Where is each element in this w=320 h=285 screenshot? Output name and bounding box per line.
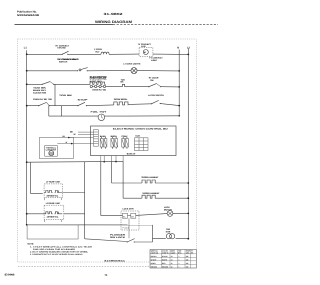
wire riser x84.6 down <box>84 162 86 239</box>
wire riser x123.1 to element row8 <box>122 162 124 199</box>
svg-text:5995268448: 5995268448 <box>17 14 40 17</box>
svg-text:3. COMPONTE SLTV IF 20 NOT UPP: 3. COMPONTE SLTV IF 20 NOT UPPLER ON ALL… <box>30 253 84 256</box>
LF surface unit dashed box <box>44 180 63 200</box>
wire row3 EOC circuit <box>27 84 180 87</box>
wire row7 rear element <box>112 182 189 184</box>
wire row9b lock to motor <box>128 213 189 215</box>
svg-text:L1: L1 <box>24 46 28 49</box>
svg-text:SWITCH: SWITCH <box>59 61 68 64</box>
wire row4 broil circuit <box>27 104 180 106</box>
svg-text:MTR: MTR <box>166 230 171 233</box>
svg-text:N: N <box>177 46 179 49</box>
thermal limiter symbol <box>49 151 54 156</box>
wire S3 to row4 <box>54 84 56 105</box>
resistor rear surface element <box>141 176 159 183</box>
junction row1-L1 <box>26 53 28 55</box>
junction row7-L2 <box>187 182 189 184</box>
svg-text:ELECTRONIC OVEN CONTROL BD: ELECTRONIC OVEN CONTROL BD <box>113 128 169 131</box>
junction row8-L2 <box>187 197 189 199</box>
svg-text:LF SURF UNIT: LF SURF UNIT <box>46 180 61 183</box>
svg-text:1500W EL: 1500W EL <box>47 216 60 219</box>
svg-text:3000W ELEMENT: 3000W ELEMENT <box>141 176 159 179</box>
wire row1 L1 to convection fan <box>27 53 189 55</box>
header rule <box>15 24 114 26</box>
connector J1 EOC plug <box>89 75 107 91</box>
lamp oven lights <box>123 63 141 74</box>
svg-text:3400W BROIL: 3400W BROIL <box>114 98 128 101</box>
motor M3 lock motor <box>164 206 173 216</box>
svg-text:DLB: DLB <box>136 135 141 138</box>
svg-text:OVEN RLY BD: OVEN RLY BD <box>92 88 106 91</box>
svg-text:E998: E998 <box>5 274 16 277</box>
svg-text:L2: L2 <box>187 46 191 49</box>
thermal limiter inner box <box>45 146 58 157</box>
junction row4-L1 <box>26 105 28 107</box>
pin P1 bake contact <box>121 78 127 86</box>
junction row3-L1 <box>26 83 28 85</box>
junction row2-L1 <box>26 70 28 72</box>
svg-text:M: M <box>144 51 146 54</box>
N bus <box>178 50 180 117</box>
svg-text:W: W <box>74 133 76 136</box>
svg-text:2400W ELEMENT: 2400W ELEMENT <box>142 192 160 195</box>
motor M4 timer motor double coil <box>166 228 175 239</box>
wire LF unit to riser <box>63 192 85 194</box>
wire row12 motor row <box>153 238 189 240</box>
svg-text:TOD BK: TOD BK <box>59 94 73 97</box>
svg-text:CLEAN SW: CLEAN SW <box>33 91 46 94</box>
svg-text:LR SURF UNIT: LR SURF UNIT <box>46 202 61 205</box>
switch S6 latch switch <box>148 94 164 104</box>
wire row10 lower feed <box>27 224 153 226</box>
svg-text:BR: BR <box>131 215 134 218</box>
svg-text:LT OVEN LIGHTS: LT OVEN LIGHTS <box>123 63 141 66</box>
svg-text:SW: SW <box>150 79 153 82</box>
svg-text:70: 70 <box>105 274 108 277</box>
text block relay labels <box>33 87 73 98</box>
junction row6 pins <box>103 161 105 163</box>
wire row11 plunger switch row <box>85 239 153 242</box>
wire riser row4-row5 a <box>48 106 50 116</box>
resistor broil element <box>114 98 129 105</box>
wire riser row4-row5 b <box>61 106 63 116</box>
svg-text:NOTE:: NOTE: <box>28 243 35 246</box>
switch S1 convect fan switch <box>56 44 80 61</box>
lock motor assembly dashed box <box>121 207 139 238</box>
svg-text:FOIL TWT: FOIL TWT <box>91 111 108 114</box>
limiter box oven relay board <box>40 137 74 158</box>
wire row9 L1 to RF unit <box>27 213 44 215</box>
connector strip J2 <box>94 130 99 147</box>
junction row1-L2 <box>187 54 189 56</box>
wire row8 front element <box>123 197 188 199</box>
RF surface unit dashed box <box>44 202 64 222</box>
svg-text:BK: BK <box>121 81 125 84</box>
notes block <box>28 243 94 257</box>
EOC bottom pins <box>101 156 123 162</box>
wire limiter to EOC c <box>69 136 94 138</box>
junction row6-L1 <box>26 161 28 163</box>
RF unit pins below <box>45 220 62 222</box>
svg-text:FAN: FAN <box>141 45 146 48</box>
svg-text:LIMITER: LIMITER <box>46 149 58 152</box>
svg-text:BAKE W: BAKE W <box>127 152 135 155</box>
wire row5 TOD motor row <box>49 115 179 117</box>
wire riser x152.5 <box>152 225 154 242</box>
switch S2 oven light switch <box>57 58 106 79</box>
diagram border frame <box>18 39 197 262</box>
switch S5 broil relay <box>77 98 88 106</box>
switch S4 door switch <box>148 77 161 88</box>
svg-text:W: W <box>66 141 68 144</box>
wire RF unit to riser <box>64 213 85 215</box>
svg-text:RLY: RLY <box>96 50 101 53</box>
L2 bus <box>187 49 189 239</box>
switch S3 selector switch <box>42 82 55 85</box>
junction row4-N <box>178 105 180 107</box>
svg-text:OVEN RLY BD TOD: OVEN RLY BD TOD <box>33 98 52 101</box>
svg-text:SW LOCK: SW LOCK <box>110 236 126 239</box>
junction row10-L1 corner <box>26 224 28 226</box>
svg-text:31590E941: 31590E941 <box>104 260 127 263</box>
wire riser x30.5 to LF unit <box>31 162 43 193</box>
svg-text:LOCK MTR: LOCK MTR <box>123 207 134 210</box>
switch S7 plunger switch <box>110 233 135 242</box>
wire riser x111.5 to element row7 <box>111 162 113 183</box>
wire limiter to EOC a <box>78 131 94 133</box>
svg-text:Publication No.: Publication No. <box>17 11 37 14</box>
svg-text:2000W EL: 2000W EL <box>47 194 60 197</box>
svg-text:FAN SW: FAN SW <box>58 47 66 50</box>
junction row9-L1 <box>26 213 28 215</box>
svg-text:WIRING DIAGRAM: WIRING DIAGRAM <box>95 20 132 24</box>
wire riser x100.8 down <box>101 162 123 216</box>
EOC box electronic oven control <box>91 126 177 156</box>
footer rule <box>18 266 149 268</box>
wire lock internal riser <box>128 218 130 238</box>
L1 bus <box>26 50 28 225</box>
LF unit pins below <box>45 198 62 200</box>
wire limiter to EOC d <box>57 143 93 145</box>
svg-text:BROIL: BROIL <box>111 135 118 138</box>
wire row6 distribution line <box>27 160 123 163</box>
junction row9b-L2 <box>187 213 189 215</box>
motor M2 TOD timer motor <box>91 111 108 121</box>
coil convect relay coil <box>94 48 109 54</box>
wire limiter to EOC b <box>78 133 94 135</box>
svg-text:LATCH SWITCH: LATCH SWITCH <box>148 94 164 97</box>
wire color code table <box>150 250 196 269</box>
svg-text:P LOCK: P LOCK <box>123 226 130 229</box>
svg-text:BK: BK <box>123 215 126 218</box>
wire row2 oven light circuit <box>27 70 180 72</box>
resistor front surface element <box>142 192 160 198</box>
svg-text:LIGHT: LIGHT <box>151 59 158 62</box>
svg-text:31-9802: 31-9802 <box>104 12 124 16</box>
svg-text:STOP: STOP <box>78 98 89 101</box>
terminal block box <box>27 225 78 239</box>
convection fan motor M1 <box>138 43 164 62</box>
